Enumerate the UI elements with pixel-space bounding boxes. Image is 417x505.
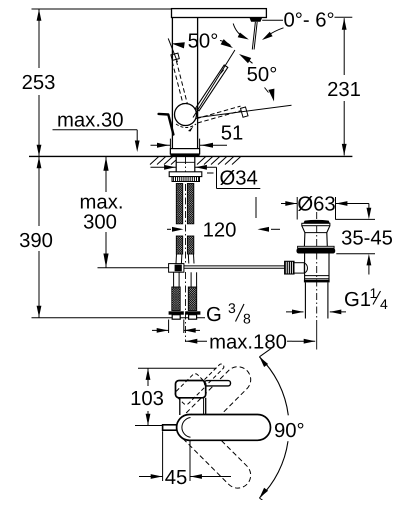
dimension 35-45 — [335, 204, 393, 275]
svg-text:Ø63: Ø63 — [297, 194, 335, 216]
stud left — [172, 272, 180, 310]
svg-text:Ø34: Ø34 — [220, 168, 258, 190]
dimension diameter 63 — [281, 194, 369, 220]
top view spout — [177, 415, 271, 441]
svg-text:50°: 50° — [188, 31, 219, 53]
extension line max.300 bottom — [98, 267, 169, 269]
svg-text:90°: 90° — [274, 420, 305, 442]
top view lever dashed — [174, 363, 225, 406]
faucet centerline — [185, 157, 187, 342]
extension line top view lower — [135, 425, 164, 427]
knurled backnut — [172, 177, 200, 182]
dimension G1-1-4 — [286, 310, 346, 315]
extension line top view upper — [138, 367, 217, 369]
lever position dashed right — [197, 106, 249, 123]
svg-text:120: 120 — [203, 220, 237, 242]
hose end left — [176, 254, 182, 264]
svg-text:390: 390 — [19, 230, 53, 252]
waste knob stem — [294, 263, 307, 273]
lever reference line — [197, 105, 292, 117]
top view body — [180, 398, 206, 415]
svg-text:3: 3 — [228, 300, 236, 316]
waste knob knurled — [285, 261, 294, 274]
aerator outlet — [249, 18, 262, 22]
svg-text:G1: G1 — [344, 289, 371, 311]
lever ball joint — [175, 104, 197, 126]
label G3-8 — [206, 300, 251, 327]
faucet body right edge — [197, 18, 199, 149]
lever neutral position — [193, 50, 235, 118]
dimension diameter 34 — [151, 165, 261, 190]
waste centerline — [316, 212, 318, 350]
dashed lever lowered hint — [176, 124, 196, 132]
threaded shank — [176, 156, 195, 171]
spout horizontal bar — [172, 9, 267, 18]
svg-text:231: 231 — [327, 79, 361, 101]
waste tailpipe — [305, 282, 328, 318]
hose nut left — [169, 311, 184, 319]
extension line top — [32, 8, 172, 10]
svg-text:51: 51 — [221, 123, 244, 145]
top view outlet tab — [163, 425, 177, 430]
svg-text:max.30: max.30 — [57, 110, 124, 132]
base plate — [170, 149, 199, 157]
svg-text:8: 8 — [243, 311, 251, 327]
dimension 51 — [151, 123, 244, 155]
svg-text:max.: max. — [80, 192, 124, 214]
dimension 231 — [327, 18, 361, 155]
label max.30 — [53, 110, 140, 153]
spout swivel dashed upper — [171, 361, 256, 446]
angle 50 lower — [239, 54, 277, 102]
supply hose right lower — [187, 236, 193, 254]
dimension max.180 — [186, 332, 315, 354]
label 90 deg — [274, 420, 305, 442]
water stream — [252, 22, 257, 50]
label G1-1-4 — [344, 285, 388, 312]
dimension 103 — [130, 368, 164, 425]
pop-up rod — [184, 266, 285, 268]
svg-text:35-45: 35-45 — [341, 228, 393, 250]
svg-text:45: 45 — [165, 467, 188, 489]
svg-text:0°- 6°: 0°- 6° — [284, 10, 335, 32]
svg-text:300: 300 — [83, 212, 117, 234]
faucet body left edge — [171, 18, 173, 149]
supply hose left upper — [176, 184, 182, 224]
lever position dashed left — [168, 38, 187, 104]
countertop line — [29, 155, 352, 157]
angle 0-6 leaders — [233, 24, 283, 41]
stud right — [188, 272, 196, 310]
angle 50 upper — [172, 31, 234, 53]
top view cartridge housing — [176, 381, 206, 398]
svg-text:4: 4 — [380, 296, 388, 312]
extension line 390 bottom — [32, 317, 206, 319]
label 0-6 deg — [262, 10, 352, 32]
svg-text:50°: 50° — [247, 64, 278, 86]
dimension 253 — [22, 9, 56, 156]
svg-text:253: 253 — [22, 72, 56, 94]
dimension G3-8 — [152, 320, 200, 334]
dimension 120 — [167, 220, 280, 242]
extension line 120 — [255, 197, 257, 218]
countertop hatching left — [150, 157, 176, 165]
dimension max.300 — [80, 157, 124, 268]
hose nut right — [185, 311, 200, 319]
side hook lever — [159, 114, 174, 135]
top view lever — [205, 381, 231, 386]
swivel arc 90 — [259, 348, 288, 505]
waste plug plate — [302, 223, 330, 225]
pop-up rod tee — [169, 264, 184, 273]
svg-text:max.180: max.180 — [209, 332, 287, 354]
dimension 390 — [19, 157, 53, 318]
svg-text:103: 103 — [130, 388, 164, 410]
svg-text:G: G — [206, 304, 222, 326]
hose end right — [188, 254, 194, 264]
dimension 45 — [139, 431, 231, 489]
waste upper body — [302, 226, 330, 247]
supply hose right upper — [187, 184, 193, 224]
waste flange — [297, 246, 336, 253]
spout swivel dashed lower — [171, 409, 256, 494]
waste plug cap — [303, 220, 330, 223]
supply hose left lower — [176, 236, 182, 254]
backnut washer — [169, 172, 202, 177]
countertop hatching right — [197, 157, 241, 165]
waste lower body — [304, 254, 330, 283]
